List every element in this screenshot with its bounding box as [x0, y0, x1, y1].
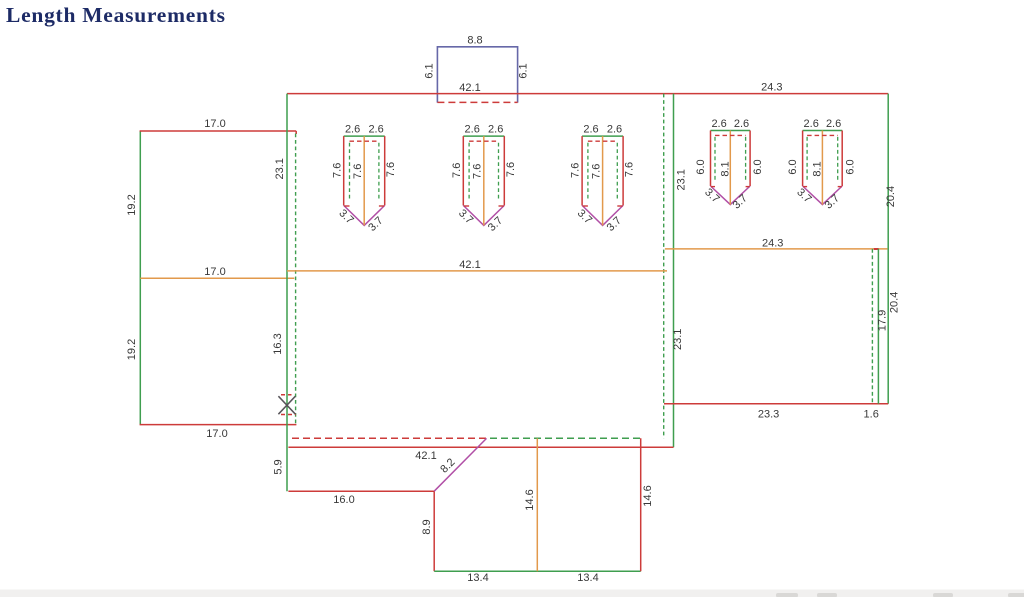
- svg-text:16.0: 16.0: [333, 494, 354, 506]
- svg-text:7.6: 7.6: [505, 162, 517, 177]
- svg-text:2.6: 2.6: [734, 118, 749, 130]
- svg-text:23.1: 23.1: [676, 169, 688, 190]
- svg-text:8.8: 8.8: [467, 35, 482, 47]
- svg-text:23.1: 23.1: [274, 158, 286, 179]
- svg-text:5.9: 5.9: [273, 459, 285, 474]
- svg-text:7.6: 7.6: [385, 162, 397, 177]
- svg-text:6.1: 6.1: [517, 63, 529, 78]
- svg-text:7.6: 7.6: [472, 164, 484, 179]
- svg-text:2.6: 2.6: [607, 124, 622, 136]
- svg-text:20.4: 20.4: [888, 292, 900, 313]
- svg-text:42.1: 42.1: [415, 450, 436, 462]
- svg-text:2.6: 2.6: [345, 124, 360, 136]
- svg-text:13.4: 13.4: [577, 572, 598, 584]
- svg-text:7.6: 7.6: [590, 164, 602, 179]
- svg-text:6.0: 6.0: [844, 159, 856, 174]
- svg-text:42.1: 42.1: [459, 82, 480, 94]
- svg-text:17.9: 17.9: [876, 310, 888, 331]
- svg-text:24.3: 24.3: [761, 82, 782, 94]
- svg-text:17.0: 17.0: [206, 428, 227, 440]
- svg-text:8.1: 8.1: [812, 161, 824, 176]
- svg-text:2.6: 2.6: [583, 124, 598, 136]
- svg-text:16.3: 16.3: [272, 333, 284, 354]
- svg-text:17.0: 17.0: [204, 118, 225, 130]
- svg-text:42.1: 42.1: [459, 259, 480, 271]
- svg-text:6.0: 6.0: [752, 159, 764, 174]
- svg-text:7.6: 7.6: [352, 164, 364, 179]
- svg-text:7.6: 7.6: [624, 162, 636, 177]
- svg-text:13.4: 13.4: [467, 572, 488, 584]
- svg-text:24.3: 24.3: [762, 237, 783, 249]
- svg-text:14.6: 14.6: [642, 485, 654, 506]
- svg-text:17.0: 17.0: [204, 266, 225, 278]
- svg-text:19.2: 19.2: [126, 194, 138, 215]
- svg-text:7.6: 7.6: [570, 163, 582, 178]
- svg-text:7.6: 7.6: [331, 163, 343, 178]
- svg-text:23.3: 23.3: [758, 408, 779, 420]
- svg-text:23.1: 23.1: [672, 329, 684, 350]
- svg-text:19.2: 19.2: [126, 339, 138, 360]
- svg-text:Length Measurements: Length Measurements: [6, 3, 225, 27]
- svg-text:20.4: 20.4: [885, 186, 897, 207]
- svg-text:2.6: 2.6: [488, 124, 503, 136]
- svg-text:6.1: 6.1: [423, 63, 435, 78]
- svg-text:2.6: 2.6: [368, 124, 383, 136]
- svg-text:14.6: 14.6: [524, 489, 536, 510]
- svg-text:7.6: 7.6: [451, 163, 463, 178]
- svg-text:2.6: 2.6: [711, 118, 726, 130]
- svg-text:8.1: 8.1: [719, 161, 731, 176]
- svg-text:2.6: 2.6: [465, 124, 480, 136]
- svg-text:8.9: 8.9: [421, 519, 433, 534]
- svg-text:2.6: 2.6: [826, 118, 841, 130]
- svg-text:2.6: 2.6: [804, 118, 819, 130]
- svg-text:6.0: 6.0: [695, 159, 707, 174]
- svg-text:1.6: 1.6: [864, 408, 879, 420]
- svg-text:6.0: 6.0: [787, 159, 799, 174]
